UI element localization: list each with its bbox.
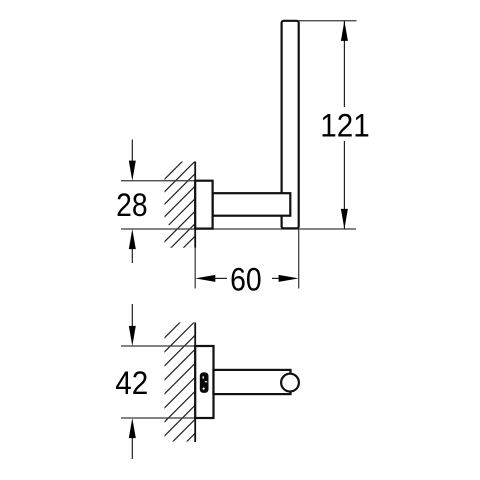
- dimension 28 leader top with arrow: [129, 140, 136, 181]
- svg-text:121: 121: [320, 108, 369, 144]
- extension line bottom (shared 28/121): [121, 228, 356, 230]
- wall hatching (side view): [144, 144, 225, 285]
- svg-text:28: 28: [116, 187, 148, 223]
- extension line 60 left: [194, 248, 196, 289]
- dimension 121 line with arrows: [341, 21, 348, 229]
- dimension 42 leader bottom with arrow: [129, 418, 136, 459]
- extension line 42 top: [121, 345, 214, 347]
- wall line (top view): [194, 323, 196, 443]
- wall plate (side view): [195, 181, 212, 229]
- svg-text:42: 42: [115, 365, 148, 401]
- dimension 42 leader top with arrow: [129, 304, 136, 346]
- dimension 60 line with arrows: [195, 275, 299, 282]
- wall hatching (top view): [155, 302, 200, 473]
- wall line (side view): [194, 162, 196, 248]
- knob circle at rod end: [281, 374, 299, 392]
- vertical bar (spare paper holder rod, side view): [282, 21, 299, 229]
- rod (top view): [214, 370, 291, 394]
- extension line 28 top: [121, 180, 213, 182]
- extension line 60 right: [298, 229, 300, 289]
- dimension 28 leader bottom with arrow: [129, 229, 136, 263]
- extension line 121 top: [299, 20, 357, 22]
- GROHE logo on plate: [200, 372, 209, 393]
- extension line 42 bottom: [121, 417, 214, 419]
- wall plate (top view): [195, 346, 213, 418]
- arm (side view): [213, 193, 291, 216]
- svg-text:60: 60: [230, 262, 262, 298]
